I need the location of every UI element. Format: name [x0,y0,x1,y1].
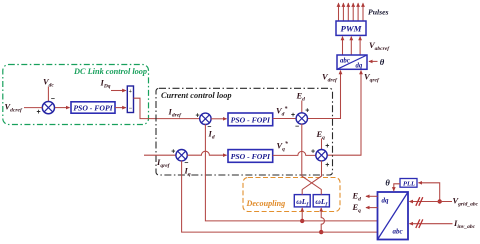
svg-text:+: + [196,112,200,119]
transform block dq-abc [378,192,409,240]
summing junction Id [200,113,211,124]
wire bus2 to wLf-right (hop over bus1) [321,208,324,232]
controller PSO-FOPI d [228,113,273,126]
wire Iinv_abc [410,223,453,225]
svg-text:+: + [325,162,329,169]
svg-text:Pulses: Pulses [368,7,389,16]
PLL block [400,179,417,188]
svg-text:+: + [291,112,295,119]
svg-text:dq: dq [382,197,390,205]
gain block wLf right [313,195,329,208]
wire Iqref to sum [144,154,176,156]
wire Ed to sum [301,101,303,114]
controller PSO-FOPI q [228,150,273,163]
svg-text:+: + [171,148,175,155]
wire Idref [134,98,200,118]
gain block wLf left [294,195,310,208]
wire Ed out [366,195,378,197]
junction Iq tap [319,230,323,234]
summing junction q-out [316,150,327,161]
three-phase slashes Vgrid [416,197,423,206]
DC link control loop box [3,65,149,125]
wire Eq to sum [321,139,323,150]
summing junction dc [42,102,54,114]
svg-text:+: + [305,107,309,114]
wire Vgrid_abc [410,201,453,203]
wire wLf-right to d summing (cross) [302,124,322,195]
summing junction Iq [176,150,187,161]
wire sum to controller [55,107,70,109]
svg-text:θ: θ [385,178,390,188]
wire sum to PSO d [211,118,227,120]
svg-text:+: + [325,143,329,150]
wire IDq to summer block [111,90,126,92]
decoupling box [243,178,340,212]
theta input wire [369,60,378,62]
svg-text:abc: abc [340,58,350,65]
wire bus1 to wLf-left [301,208,303,221]
junction Vgrid-PLL [438,199,442,203]
wire PLL theta to dq block [394,184,400,191]
svg-text:PSO - FOPI: PSO - FOPI [231,152,271,161]
svg-text:Current control loop: Current control loop [161,91,232,100]
wire q error to PSO (hop over Id line) [187,151,226,155]
svg-text:abc: abc [393,228,403,236]
wire Vgrid to PLL [419,183,440,201]
controller PSO-FOPI dc [71,102,115,113]
pulse output arrows [339,3,364,21]
svg-text:θ: θ [380,57,385,67]
svg-text:PWM: PWM [340,23,362,33]
svg-text:−: − [129,106,133,112]
svg-text:DC Link control loop: DC Link control loop [73,67,147,76]
wire Vdref to abc/dq [307,71,340,119]
svg-text:Decoupling: Decoupling [246,199,286,208]
wire Eq out [366,207,378,209]
PWM block [336,21,366,35]
svg-text:PLL: PLL [403,180,415,187]
svg-text:+: + [129,89,133,95]
wire wLf-left to q summing (cross) [302,161,321,195]
svg-text:+: + [311,148,315,155]
svg-text:dq: dq [356,63,363,70]
current control loop box [156,88,333,175]
summer block (vertical rect) [127,86,133,113]
wire Vqref to abc/dq [327,71,361,156]
wire Vd* to sum [273,118,297,120]
wire Vq* to sum (hop over decoupling line) [273,151,316,155]
wire Vdc to sum [47,87,49,102]
svg-text:PSO - FOPI: PSO - FOPI [231,115,271,124]
Iq feedback bus [182,161,378,233]
junction Id tap [300,219,304,223]
Id feedback bus [205,124,377,221]
summing junction d-out [296,113,307,124]
three-phase slashes Iinv [416,219,423,228]
svg-text:PSO - FOPI: PSO - FOPI [73,104,113,113]
wire Vdcref to sum [24,107,42,109]
svg-text:−: − [295,124,299,131]
transform block abc-dq [337,55,367,70]
wire controller to summer block [115,107,126,109]
svg-text:+: + [37,109,41,116]
wires abc/dq to PWM [343,37,361,55]
